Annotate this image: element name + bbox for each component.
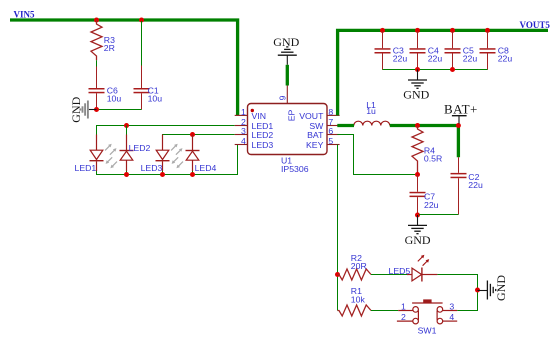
node caps gnd junction — [415, 67, 420, 72]
svg-text:LED3: LED3 — [252, 140, 274, 150]
U1 pin 6 stub — [327, 134, 340, 136]
svg-text:LED1: LED1 — [75, 163, 97, 173]
ground GND (right of switch, bars point right) — [478, 290, 488, 292]
wire IC pin3 net to LED3/LED4 — [163, 135, 235, 143]
svg-text:2: 2 — [401, 312, 406, 322]
svg-text:22u: 22u — [463, 54, 478, 64]
svg-text:8: 8 — [328, 107, 333, 117]
node R4 top junction — [415, 123, 420, 128]
svg-text:10k: 10k — [351, 294, 366, 304]
svg-text:4: 4 — [241, 136, 246, 146]
svg-text:LED2: LED2 — [129, 143, 151, 153]
svg-text:GND: GND — [405, 233, 431, 247]
svg-text:1: 1 — [241, 107, 246, 117]
SW1 pin 1 stub — [398, 310, 413, 312]
node C8 top — [485, 28, 490, 33]
svg-text:VIN: VIN — [252, 111, 266, 121]
wire C6/C1 ground bus — [97, 109, 142, 111]
U1 pin 2 stub — [235, 125, 248, 127]
svg-text:GND: GND — [273, 35, 299, 49]
U1 pin 1 marker dot — [251, 109, 254, 112]
wire L1 to BAT+ (thick) — [390, 126, 459, 158]
svg-text:9: 9 — [277, 95, 287, 100]
svg-text:IP5306: IP5306 — [281, 164, 309, 174]
svg-text:GND: GND — [403, 87, 429, 101]
node LED3 bottom junction — [160, 172, 165, 177]
svg-text:20R: 20R — [351, 261, 367, 271]
node R4/C7 junction — [415, 172, 420, 177]
IC U1 IP5306 — [235, 86, 340, 174]
node LED4 top junction — [190, 132, 195, 137]
LED2 arrows — [106, 157, 117, 168]
svg-text:LED4: LED4 — [195, 163, 217, 173]
node C5 bottom junction — [450, 67, 455, 72]
capacitor C5 — [445, 31, 478, 70]
node switch gnd junction — [475, 288, 480, 293]
svg-text:2R: 2R — [104, 43, 115, 53]
ground GND (below C7) — [417, 215, 419, 225]
SW1 pin 4 stub — [443, 320, 458, 322]
node LED2 bottom junction — [124, 172, 129, 177]
wire IC pin5 (KEY) down — [337, 145, 339, 311]
wire LED bottom bus to IC pin4 — [97, 145, 238, 175]
svg-text:22u: 22u — [393, 54, 408, 64]
capacitor C8 — [480, 31, 513, 70]
node KEY/R2 junction — [335, 272, 340, 277]
LED LED4 (flipped) — [186, 135, 200, 172]
LED4 arrows — [172, 157, 183, 168]
svg-text:LED5: LED5 — [389, 266, 411, 276]
svg-text:6: 6 — [328, 126, 333, 136]
svg-text:VOUT: VOUT — [299, 111, 324, 121]
svg-text:4: 4 — [449, 312, 454, 322]
U1 pin 4 stub — [235, 144, 248, 146]
node LED4 bottom junction — [190, 172, 195, 177]
wire VIN5 rail — [10, 20, 238, 115]
svg-text:3: 3 — [241, 126, 246, 136]
LED LED1 — [90, 135, 104, 172]
SW1 contact circles — [413, 307, 419, 313]
node C4 top — [415, 28, 420, 33]
SW1 pin 2 stub — [397, 320, 413, 322]
svg-text:5: 5 — [328, 136, 333, 146]
wire R3 to C6 — [96, 60, 98, 67]
capacitor C4 — [410, 31, 443, 70]
svg-text:LED2: LED2 — [252, 130, 274, 140]
LED1 arrows — [105, 144, 116, 155]
SW1 pin 3 stub — [443, 310, 458, 312]
U1 pin 1 stub — [235, 114, 248, 116]
svg-text:BAT: BAT — [307, 130, 324, 140]
U1 pin 7 stub — [327, 125, 340, 127]
SW1 actuator — [412, 302, 443, 304]
wire caps bottom bus — [383, 69, 488, 71]
capacitor C1 — [141, 21, 143, 66]
power port BAT+ — [452, 116, 467, 124]
svg-text:10u: 10u — [107, 94, 122, 104]
ground GND (left, gray bars) — [89, 109, 97, 111]
svg-text:22u: 22u — [498, 54, 513, 64]
wire VOUT net (thick) — [338, 30, 548, 115]
node LED2 top junction — [124, 123, 129, 128]
node C5 top — [450, 28, 455, 33]
resistor R4 — [412, 126, 423, 175]
inductor L1 — [340, 121, 390, 125]
LED LED2 (flipped) — [120, 135, 134, 172]
svg-text:VIN5: VIN5 — [14, 10, 36, 20]
svg-text:LED3: LED3 — [141, 163, 163, 173]
svg-text:GND: GND — [494, 275, 508, 301]
capacitor C2 — [451, 157, 483, 214]
svg-text:1u: 1u — [366, 106, 376, 116]
svg-text:22u: 22u — [424, 200, 439, 210]
LED LED3 — [156, 135, 170, 172]
switch SW1 — [397, 299, 457, 324]
LED LED5 — [407, 268, 437, 282]
node BAT+ junction — [456, 123, 461, 128]
wire SW thick segment — [337, 124, 354, 127]
svg-text:22u: 22u — [428, 54, 443, 64]
svg-text:GND: GND — [69, 96, 83, 122]
U1 pin 9 stub — [286, 86, 288, 104]
ground GND (below output caps) — [417, 70, 419, 81]
svg-text:0.5R: 0.5R — [424, 154, 442, 164]
capacitor C7 — [410, 175, 439, 214]
resistor R1 — [338, 305, 372, 316]
node VIN5/R3 junction — [94, 18, 99, 23]
node C7 bottom junction — [415, 213, 420, 218]
wire IC pin2 net to LED1/LED2 — [97, 126, 235, 137]
U1 pin 5 stub — [327, 144, 340, 146]
U1 pin 3 stub — [235, 134, 248, 136]
svg-text:EP: EP — [286, 110, 296, 122]
U1 pin 8 stub — [327, 114, 340, 116]
svg-text:22u: 22u — [468, 180, 483, 190]
ground GND (above EP, bars point up) — [278, 47, 297, 65]
wire C2 bottom to C7 bottom — [419, 214, 459, 216]
LED5 arrows — [418, 255, 429, 266]
svg-text:10u: 10u — [148, 94, 163, 104]
svg-text:BAT+: BAT+ — [444, 102, 478, 117]
wire IC pin6 (BAT) to R4 bottom — [337, 135, 415, 175]
node VIN5/C1 junction — [139, 18, 144, 23]
node C6 ground junction — [94, 107, 99, 112]
capacitor C3 — [375, 31, 408, 70]
svg-text:1: 1 — [401, 301, 406, 311]
svg-text:KEY: KEY — [306, 140, 324, 150]
LED3 arrows — [171, 144, 182, 155]
wire EP net (thick) — [286, 65, 289, 86]
resistor R2 — [338, 269, 372, 280]
wire LED5 to switch pin3 — [437, 275, 477, 311]
resistor R3 — [91, 20, 102, 60]
svg-text:VOUT5: VOUT5 — [520, 20, 551, 30]
node C3 top — [380, 28, 385, 33]
SW1 contact links — [417, 311, 419, 320]
capacitor C6 — [89, 67, 122, 110]
svg-text:SW1: SW1 — [418, 326, 437, 336]
svg-text:3: 3 — [449, 301, 454, 311]
